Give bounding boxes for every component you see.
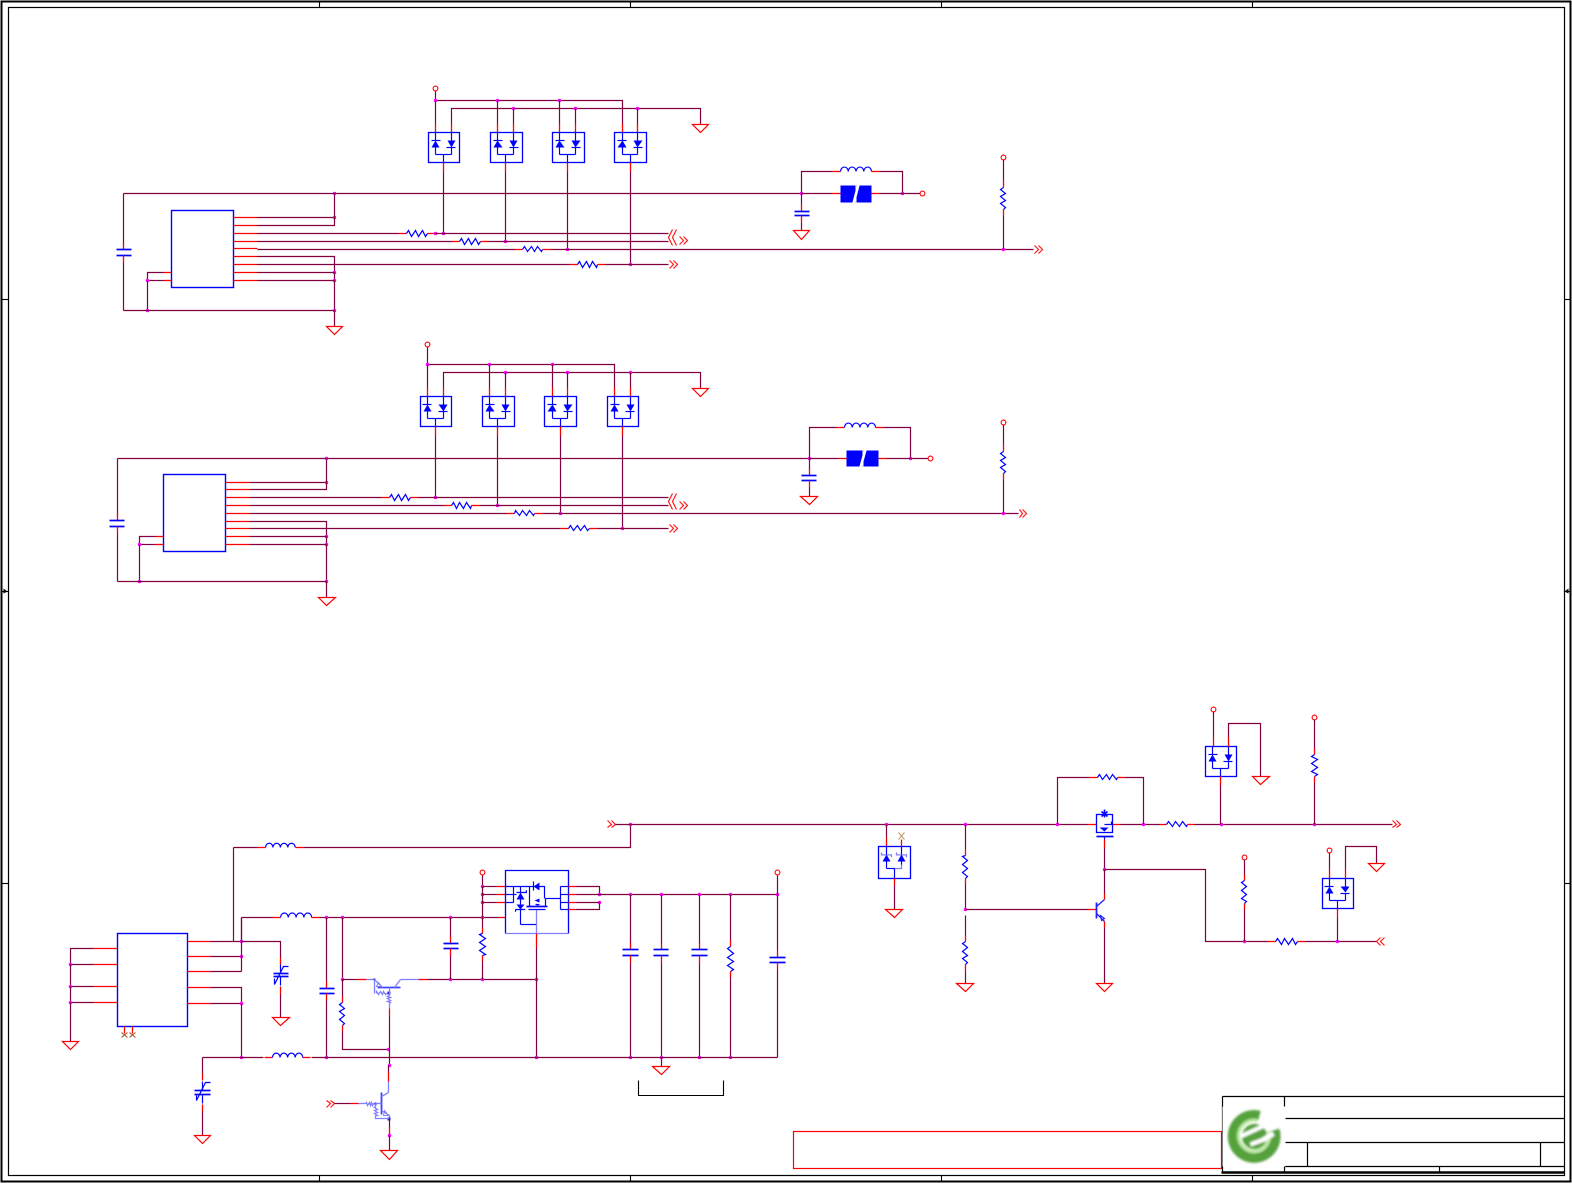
junction <box>1002 248 1006 252</box>
wire R30 down <box>730 978 732 1058</box>
wire Q1 node drop <box>342 918 344 980</box>
wire U1 pin8 gnd seg <box>258 272 335 274</box>
resistor R26 <box>1268 939 1306 945</box>
wire C12 down <box>630 963 632 1058</box>
junction <box>698 893 702 897</box>
junction <box>598 901 602 905</box>
IC U3 body <box>118 934 188 1027</box>
wire choke right <box>880 172 903 194</box>
diode array D5 body <box>879 847 911 879</box>
wire line B left <box>258 241 452 243</box>
wire Q2 emitter to gnd <box>389 1136 391 1151</box>
wire chain to gnd <box>965 971 967 984</box>
power port P8 <box>1312 715 1317 720</box>
wire U4 l3 link <box>483 902 497 904</box>
pin U1 left a <box>164 272 172 274</box>
capacitor C13 <box>654 943 669 963</box>
wire line A left <box>258 233 399 235</box>
ground for bus4 <box>693 389 709 397</box>
wire bus1 top rail <box>436 101 623 124</box>
junction <box>901 192 905 196</box>
pin D6.3 <box>1220 777 1222 786</box>
resistor R11 <box>382 495 419 501</box>
wire C12 up <box>630 895 632 944</box>
wire P12 stem <box>777 876 779 895</box>
pin U1 right 4 <box>234 241 258 243</box>
wire Q1 res drop <box>342 980 344 997</box>
inductor L1 <box>833 167 880 171</box>
wire D5 to gnd <box>894 886 896 910</box>
wire bus into ferrite 2 <box>810 458 839 460</box>
wire line C left <box>258 249 515 251</box>
junction <box>333 271 337 275</box>
wire Q3 source down <box>1104 848 1106 870</box>
junction <box>629 1056 633 1060</box>
resistor R12 <box>444 503 480 509</box>
wire D6 bottom to rail <box>1220 786 1222 825</box>
wire C14 down <box>699 963 701 1058</box>
power port P11 <box>480 870 485 875</box>
junction <box>325 535 329 539</box>
pin U1 left b <box>164 280 172 282</box>
power port P10 <box>1327 848 1332 853</box>
junction <box>387 1048 391 1052</box>
wire U3 left pin2 <box>71 964 94 966</box>
wire gnd bus stub <box>661 1058 663 1067</box>
sheet entry port rail right <box>1393 821 1401 828</box>
wire gnd vertical seg 2 <box>326 537 328 545</box>
ground for D5 <box>886 910 903 918</box>
pin FB2 left <box>839 458 847 460</box>
junction <box>333 309 337 313</box>
junction <box>138 580 142 584</box>
sheet entry port branch <box>1377 938 1385 946</box>
wire gnd vertical to bus <box>334 281 336 311</box>
no-connect X <box>130 1033 136 1038</box>
junction <box>449 916 453 920</box>
resistor R27 <box>1242 875 1247 910</box>
wire choke up left <box>802 172 833 194</box>
ferrite bead FB1 <box>841 185 872 204</box>
wire L3 to rail <box>304 825 631 848</box>
wire line D2 right <box>598 528 669 530</box>
junction <box>481 893 485 897</box>
pin U3 right 4 <box>188 987 211 989</box>
junction <box>885 823 889 827</box>
capacitor C11 <box>444 937 459 956</box>
sheet entry port left AB <box>669 230 677 246</box>
wire branch far right <box>1306 941 1377 943</box>
wire bus3 drop to D13 <box>552 365 554 388</box>
wire L3 lead left <box>234 847 258 849</box>
junction <box>240 955 244 959</box>
wire C15 down <box>777 970 779 1058</box>
pin U2 right 2 <box>226 489 250 491</box>
junction <box>504 240 508 244</box>
junction <box>146 309 150 313</box>
pin D11.2 <box>443 388 445 397</box>
pin U1 right 1 <box>234 217 258 219</box>
resistor R15 <box>1001 446 1006 480</box>
junction <box>559 512 563 516</box>
wire U3 left v2 <box>70 987 72 1003</box>
wire U2 pin6 to gnd <box>250 522 327 537</box>
wire loop left leg <box>1058 778 1090 825</box>
wire bus2 top rail <box>452 109 701 125</box>
wire L4 corner <box>241 918 243 942</box>
diode array D7 <box>1323 879 1354 909</box>
junction <box>388 1134 392 1138</box>
junction <box>698 1056 702 1060</box>
capacitor C14 <box>692 943 708 963</box>
capacitor C12 <box>623 943 639 963</box>
wire line A right <box>436 233 669 235</box>
junction <box>69 1001 73 1005</box>
wire main bus <box>124 193 802 195</box>
wire Q2 base wire <box>335 1103 351 1105</box>
junction <box>629 263 633 267</box>
wire D11 bottom to line <box>435 436 437 498</box>
wire ferrite to port 2 <box>887 458 929 460</box>
wire bus4 drop to D13 <box>567 373 569 388</box>
resistor R13 <box>507 511 543 516</box>
wire U2 pin1 to bus tie <box>250 482 327 484</box>
resistor R24 <box>963 936 968 971</box>
ESD diode array D4 <box>615 133 647 163</box>
wire bus tie vertical 2 <box>250 459 327 490</box>
resistor R1 <box>399 231 436 237</box>
junction <box>1313 823 1317 827</box>
wire P3 stem <box>1003 160 1005 182</box>
capacitor C2 <box>795 205 810 223</box>
wire riser to L3 <box>233 848 235 942</box>
pin C16 bottom <box>202 1105 204 1112</box>
junction <box>909 457 913 461</box>
ESD diode array D1 <box>429 133 460 163</box>
wire line D2 left <box>250 528 561 530</box>
pin Q2 collector <box>388 1073 390 1082</box>
junction <box>629 371 633 375</box>
wire Q1 base below <box>389 1050 391 1066</box>
junction <box>808 457 812 461</box>
junction <box>333 192 337 196</box>
wire pinR1 branch <box>242 942 281 958</box>
pin U2 right 4 <box>226 505 250 507</box>
power port P6 <box>1001 420 1006 425</box>
pin U3 left 1 <box>94 948 118 950</box>
ground for C16 <box>195 1136 211 1144</box>
pin U4 source <box>536 934 538 948</box>
wire choke up left 2 <box>810 428 837 459</box>
pin U2 right 5 <box>226 513 250 515</box>
junction <box>240 1056 244 1060</box>
resistor R29 <box>480 928 486 962</box>
wire P10 stem <box>1329 853 1331 870</box>
wire R25 to rail <box>1314 783 1316 825</box>
wire U4 l1 link <box>483 886 497 888</box>
pin U2 right 3 <box>226 497 250 499</box>
inductor L4 <box>273 913 320 917</box>
wire D13 bottom to line <box>560 436 562 514</box>
resistor R21 <box>1160 822 1195 827</box>
wire cap drop <box>801 194 803 205</box>
ground for C2 <box>794 231 810 240</box>
wire C17 to gnd <box>280 995 282 1018</box>
wire line D left <box>258 264 570 266</box>
wire Q1 base down <box>389 1017 391 1050</box>
wire U3 left v1 <box>70 965 72 987</box>
pin D12.2 <box>505 388 507 397</box>
wire L4 to U4 <box>320 917 499 919</box>
wire D2 bottom to line <box>505 172 507 242</box>
junction <box>1243 940 1247 944</box>
wire chain drop2 <box>965 916 967 936</box>
wire C11 up <box>450 918 452 937</box>
junction <box>729 893 733 897</box>
wire gnd stem U2 <box>326 582 328 598</box>
junction <box>660 1056 664 1060</box>
pin D4.3 <box>630 163 632 172</box>
power port P7 <box>1211 707 1216 712</box>
wire chain mid <box>965 885 967 910</box>
pin D3.1 <box>559 124 561 133</box>
title block outline <box>1223 1097 1565 1173</box>
node VCC1 stem <box>435 91 437 101</box>
frame center arrow right <box>1565 589 1572 594</box>
wire P8 stem <box>1314 720 1316 749</box>
pin Q2 base <box>351 1103 359 1105</box>
ground for D7 <box>1369 864 1385 872</box>
wire left drop lower <box>123 263 125 311</box>
wire U3 pinR2 <box>211 956 242 958</box>
junction <box>341 916 345 920</box>
pin FB2 right <box>879 458 887 460</box>
wire U2 pin9 gnd seg <box>250 544 327 546</box>
pin D2.2 <box>513 124 515 133</box>
ESD diode array D2 <box>491 133 523 163</box>
frame center arrow left <box>2 589 9 594</box>
wire D12 bottom to line <box>497 436 499 506</box>
pin U1 right 5 <box>234 248 258 250</box>
pin U4 left3 <box>497 902 506 904</box>
junction <box>558 99 562 103</box>
transistor Q4 npn <box>1088 894 1105 928</box>
wire P6 stem <box>1003 425 1005 446</box>
wire U3 pinR5 <box>211 1003 242 1005</box>
IC U1 body <box>172 211 234 288</box>
pin U3 left 4 <box>94 1002 118 1004</box>
ground for R24 <box>957 984 974 992</box>
wire U1 pin6 to gnd <box>258 257 335 273</box>
wire branch right <box>1105 870 1237 942</box>
pin D13.2 <box>567 388 569 397</box>
pin U3 right 3 <box>188 971 211 973</box>
wire U3 pinR3 <box>211 971 242 973</box>
pin U3 right 5 <box>188 1003 211 1005</box>
junction <box>1002 512 1006 516</box>
inductor L3 <box>258 843 304 847</box>
junction <box>1103 868 1107 872</box>
junction <box>496 504 500 508</box>
ESD diode array D3 <box>553 133 585 163</box>
wire bus3 drop to D11 <box>427 365 429 388</box>
title block dividers <box>1285 1097 1565 1173</box>
junction <box>504 371 508 375</box>
pin D7.3 <box>1337 909 1339 918</box>
wire U3 left to gnd <box>70 1003 72 1042</box>
transistor Q1 digital pnp <box>367 979 419 1009</box>
pin D2.1 <box>497 124 499 133</box>
pin U2 right 9 <box>226 544 250 546</box>
wire line A2 left <box>250 497 382 499</box>
wire vert R123 <box>241 918 243 972</box>
wire rail far right <box>1195 824 1393 826</box>
junction <box>449 978 453 982</box>
wire left drop upper 2 <box>117 459 119 516</box>
wire line C2 right <box>543 513 1019 515</box>
pin Q1 base lead <box>389 1009 391 1017</box>
bracket marker <box>639 1081 724 1096</box>
wire left drop lower 2 <box>117 534 119 582</box>
wire line A2 right <box>419 497 669 499</box>
wire bus2 drop to D4 <box>637 109 639 124</box>
junction <box>146 279 150 283</box>
sheet entry port right AB <box>680 237 688 245</box>
junction <box>1142 823 1146 827</box>
junction <box>964 908 968 912</box>
wire D5 up <box>886 825 888 838</box>
wire C16 to gnd <box>202 1112 204 1136</box>
pin FB1 left <box>832 193 841 195</box>
wire bus into ferrite <box>802 193 832 195</box>
sheet entry port right AB 2 <box>680 502 688 510</box>
junction <box>598 893 602 897</box>
junction <box>69 963 73 967</box>
junction <box>636 107 640 111</box>
resistor R28 <box>340 997 345 1032</box>
pin D12.3 <box>497 427 499 436</box>
junction <box>138 543 142 547</box>
wire choke right 2 <box>884 428 911 459</box>
ferrite bead FB2 <box>847 450 879 468</box>
pin D4.1 <box>622 124 624 133</box>
ground for bus2 <box>693 125 709 133</box>
pin D3.2 <box>575 124 577 133</box>
ground for Q4 <box>1097 984 1113 992</box>
pin U2 right 1 <box>226 482 250 484</box>
pin U4 right1 <box>569 886 577 888</box>
node VCC2 stem <box>427 347 429 365</box>
junction <box>325 457 329 461</box>
wire U4 l2 link <box>483 894 497 896</box>
wire U1 pin1 to bus tie <box>258 217 335 219</box>
pin U1 right 6 <box>234 256 258 258</box>
wire R15 to line C2 <box>1003 480 1005 514</box>
pin D3.3 <box>567 163 569 172</box>
junction <box>325 916 329 920</box>
pin U1 right 7 <box>234 264 258 266</box>
pin U3 right 2 <box>188 956 211 958</box>
junction <box>1220 823 1224 827</box>
wire D1 bottom to line <box>443 172 445 234</box>
junction <box>442 232 446 236</box>
capacitor C4 <box>802 469 817 488</box>
wire U4 r2 rail <box>577 894 778 896</box>
pin D5.1 <box>886 838 888 847</box>
junction <box>535 1056 539 1060</box>
wire R27 down <box>1244 910 1246 942</box>
wire Q4 collector <box>1104 870 1106 894</box>
ground for U2 <box>319 598 336 606</box>
ESD diode array D11 <box>421 397 452 427</box>
wire ferrite to port <box>880 193 921 195</box>
ground for Q2 <box>381 1151 398 1160</box>
wire Q2 emitter seg <box>389 1119 391 1128</box>
wire U1 left to gnd bus <box>147 281 149 311</box>
pin U1 right 2 <box>234 225 258 227</box>
junction <box>434 99 438 103</box>
red annotation rectangle <box>794 1132 1222 1169</box>
pin U4 right3 <box>569 902 577 904</box>
wire left drop upper <box>123 194 125 245</box>
junction <box>535 978 539 982</box>
wire bus tie vertical <box>258 194 335 226</box>
wire Q2 collector up <box>388 1066 390 1073</box>
wire bus4 drop to D12 <box>505 373 507 388</box>
transistor Q3 mosfet <box>1088 810 1121 840</box>
wire C13 down <box>661 963 663 1058</box>
resistor R25 <box>1312 749 1318 783</box>
junction <box>629 893 633 897</box>
IC U2 body <box>164 475 226 552</box>
power port P9 <box>1242 855 1247 860</box>
junction <box>660 893 664 897</box>
wire R5 to line C <box>1003 216 1005 250</box>
junction <box>325 481 329 485</box>
junction <box>434 496 438 500</box>
junction <box>240 1002 244 1006</box>
wire gnd bus bottom right <box>312 1057 778 1059</box>
pin D5.3 <box>894 879 896 886</box>
pin D14.2 <box>630 388 632 397</box>
power port P12 <box>775 870 780 875</box>
wire line D right <box>606 264 669 266</box>
pin U2 right 8 <box>226 536 250 538</box>
wire cap to gnd <box>801 223 803 231</box>
wire vert R45 to bus <box>241 1004 243 1058</box>
pin D1.1 <box>435 124 437 133</box>
junction <box>776 893 780 897</box>
pin U1 right 3 <box>234 233 258 235</box>
pin Q1 emitter <box>358 979 367 981</box>
pin D13.3 <box>560 427 562 436</box>
wire bus1 drop to D3 <box>559 101 561 124</box>
ground for C17 <box>273 1018 290 1026</box>
wire R30 up <box>730 895 732 941</box>
diode array D6 <box>1206 747 1237 777</box>
junction <box>621 527 625 531</box>
wire bus4 drop to D14 <box>630 373 632 388</box>
junction <box>325 1056 329 1060</box>
wire P11 stem <box>482 876 484 887</box>
ESD diode array D13 <box>545 397 577 427</box>
wire U3 pinR1 <box>211 941 242 943</box>
wire branch mid <box>1237 941 1268 943</box>
inductor L2 <box>837 423 884 427</box>
wire rail right segment <box>1121 824 1160 826</box>
wire bus2 drop to D3 <box>575 109 577 124</box>
resistor R4 <box>570 262 606 268</box>
